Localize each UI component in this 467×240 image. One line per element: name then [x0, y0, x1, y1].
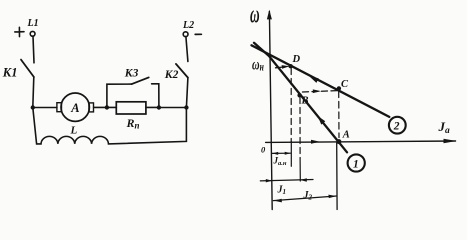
svg-text:Rп: Rп [126, 116, 140, 131]
svg-text:L2: L2 [182, 20, 194, 31]
svg-text:ωн: ωн [252, 55, 264, 74]
svg-text:К3: К3 [124, 68, 139, 80]
svg-text:Ja: Ja [438, 119, 451, 136]
svg-text:J1: J1 [277, 185, 287, 197]
svg-text:L: L [70, 125, 78, 137]
svg-text:Jа.н: Jа.н [273, 156, 287, 168]
svg-text:C: C [341, 79, 349, 90]
svg-text:ω: ω [250, 1, 260, 29]
svg-text:2: 2 [393, 121, 400, 133]
svg-text:К2: К2 [164, 69, 179, 81]
svg-text:L1: L1 [27, 18, 39, 29]
svg-text:0: 0 [261, 145, 266, 155]
svg-text:К1: К1 [2, 66, 18, 80]
svg-text:A: A [70, 101, 79, 115]
svg-text:B: B [301, 96, 309, 107]
svg-text:A: A [342, 130, 350, 141]
svg-text:J2: J2 [303, 190, 313, 202]
svg-text:D: D [292, 54, 301, 65]
svg-text:1: 1 [353, 158, 359, 170]
